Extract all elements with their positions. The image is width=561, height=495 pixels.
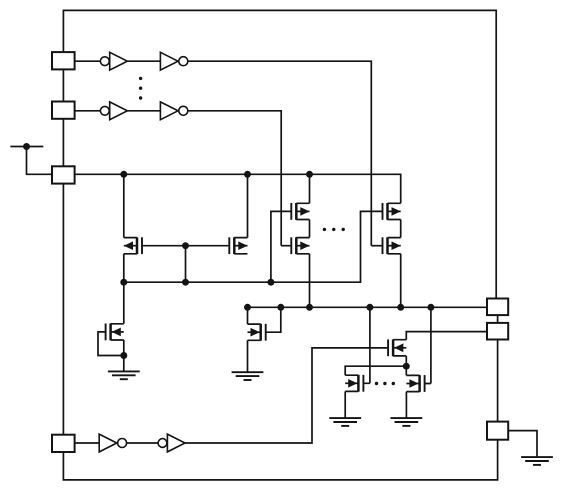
ground GND2 <box>232 372 264 380</box>
junction net A at M1 source <box>120 279 127 286</box>
wire M9 source down to node D <box>405 356 407 366</box>
junction net A at M3 gate drop <box>267 279 274 286</box>
transistor M6 <box>383 237 401 254</box>
junction net B at M6 source <box>397 304 404 311</box>
junction mirror gate node <box>182 242 189 249</box>
wire M10 gate up to net B <box>363 307 370 383</box>
wire net C down to M3 drain <box>309 174 311 203</box>
transistor M9 <box>388 339 406 356</box>
wire net row2 from U2b to M4 gate column <box>188 111 281 246</box>
ground GND4 <box>391 418 423 426</box>
transistor M3 <box>291 203 309 220</box>
pad PR3 <box>487 422 508 440</box>
transistor M1 <box>124 237 142 254</box>
wire node D down to M11 drain <box>405 366 407 375</box>
wire net C from pad P3 across to M5 drain <box>75 174 401 203</box>
wire M6 source down to net B <box>400 254 402 307</box>
pad P2 <box>52 102 75 119</box>
junction M7 gate-source tie <box>120 352 127 359</box>
wire M4 source down to net B <box>309 254 311 307</box>
wire M1 source down to M7 drain <box>123 254 125 324</box>
junction node D <box>403 363 410 370</box>
pad P4 <box>52 435 75 452</box>
wire M7 gate loop to source <box>98 332 124 356</box>
ellipsis between transistor columns <box>323 228 345 231</box>
transistor M11 <box>406 375 424 392</box>
pad P1 <box>52 52 75 69</box>
pad PR2 <box>487 323 508 340</box>
junction net B at M2 source <box>244 304 251 311</box>
junction net B at M11 gate <box>427 304 434 311</box>
junction net A below mirror gate <box>182 279 189 286</box>
wire pad P1 to inverter U1a <box>75 60 101 62</box>
inverter U2a with input bubble <box>100 102 127 120</box>
wire M9 drain up to pad PR2 <box>406 332 487 340</box>
inverter U3b with input bubble <box>158 434 185 452</box>
wire net B to pad PR1 <box>248 306 488 308</box>
wire input stub horizontal <box>10 146 43 148</box>
wire net B down to M8 drain <box>247 307 249 324</box>
wire left bus pad P3 to P4 <box>62 183 64 435</box>
wire M6 gate lead from row1 net <box>371 245 382 247</box>
junction net C at M1 drain <box>120 171 127 178</box>
transistor M10 <box>345 375 363 392</box>
wire U1a to U1b <box>127 60 160 62</box>
pad PR1 <box>487 299 508 316</box>
junction net C at M3 drain <box>306 171 313 178</box>
junction input stub <box>23 143 30 150</box>
wire U3a to U3b <box>127 442 158 444</box>
wire input stub to pad P3 <box>27 147 53 175</box>
wire left bus pad P1 to P2 <box>62 69 64 101</box>
wire right border between pads PR2 and PR3 <box>497 340 499 422</box>
wire M7 source to ground <box>123 340 125 371</box>
wire between M5 source and M6 drain <box>400 220 402 238</box>
ellipsis between inverter rows <box>139 77 142 100</box>
wire M8 source to ground <box>247 340 249 372</box>
inverter U1b with output bubble <box>160 52 187 70</box>
transistor M4 <box>291 237 309 254</box>
wire between pads PR1 and PR2 <box>497 315 499 323</box>
ground GND5 <box>521 457 553 465</box>
wire U2a to U2b <box>127 110 160 112</box>
ground GND1 <box>108 371 140 379</box>
inverter U2b with output bubble <box>160 102 187 120</box>
wire M11 gate up to net B <box>425 307 431 383</box>
transistor M8 <box>248 324 266 341</box>
wire between M3 source and M4 drain <box>309 220 311 238</box>
ellipsis between M10 and M11 <box>375 382 395 385</box>
wire M8 gate up to net B <box>266 307 281 332</box>
junction net B at M4 source <box>306 304 313 311</box>
wire node D to M10 drain <box>345 366 406 375</box>
wire M1 gate to M2 gate <box>143 245 228 247</box>
wire M4 gate lead <box>281 245 291 247</box>
wire net row3 from U3b to M9 gate <box>185 348 388 443</box>
wire net row1 from U1b to M6 gate column <box>188 61 371 246</box>
inverter U1a with input bubble <box>100 52 127 70</box>
ground GND3 <box>329 418 361 426</box>
wire top border (VDD rail) with right border <box>63 10 496 298</box>
wire M10 source to ground <box>344 391 346 418</box>
wire pad PR3 to ground GND5 <box>508 431 537 457</box>
wire net C down to M2 drain <box>247 174 249 237</box>
junction net C at M2 drain <box>244 171 251 178</box>
transistor M5 <box>383 203 401 220</box>
wire net C down to M1 drain <box>123 174 125 237</box>
junction net B at M10 gate <box>366 304 373 311</box>
junction net B at M8 gate <box>277 304 284 311</box>
pad P3 <box>52 166 75 183</box>
wire mirror gate node down to net A <box>185 246 187 283</box>
wire left bus pad P2 to P3 <box>62 119 64 167</box>
transistor M7 <box>106 324 124 341</box>
wire pad P2 to inverter U2a <box>75 110 101 112</box>
wire net A with rise to M5 gate <box>124 211 383 282</box>
inverter U3a with output bubble <box>99 434 126 452</box>
wire bottom border from pad P4 to pad PR3 <box>63 440 497 480</box>
wire M11 source to ground <box>405 392 407 418</box>
transistor M2 <box>229 237 247 254</box>
wire pad P4 to inverter U3a <box>75 442 100 444</box>
wire M3 gate to net A drop <box>271 211 292 282</box>
